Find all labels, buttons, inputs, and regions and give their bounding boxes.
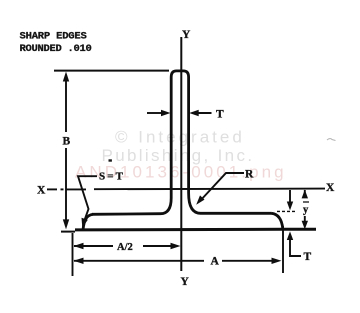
centerline X main	[94, 188, 325, 191]
extension line for B at stem top	[54, 70, 169, 72]
dimension y-bar line upper	[304, 190, 306, 198]
dimension y-bar line lower	[304, 216, 306, 223]
flange left tip curve	[83, 214, 93, 230]
dimension T top: left arrow tail	[147, 112, 163, 114]
arrowhead A/2 right (points right)	[171, 243, 181, 249]
dimension T bottom right: stem and elbow	[290, 238, 301, 256]
dimension B line lower	[65, 148, 67, 223]
arrowhead T-top left (points right)	[161, 110, 171, 116]
arrowhead flange-top right (points down)	[287, 202, 293, 211]
centerline X dot	[61, 188, 64, 190]
svg-text:T: T	[216, 109, 224, 121]
T-section outline: stem walls, stem top dome, fillets, flange top, flange tips, flange bottom	[171, 71, 188, 198]
svg-text:Y: Y	[182, 29, 191, 41]
centerline X (horizontal axis) dash	[47, 188, 57, 190]
arrowhead T-top right (points left)	[189, 110, 199, 116]
leader for S=T	[78, 176, 97, 223]
svg-text:X: X	[37, 185, 46, 197]
dimension B line upper	[65, 77, 67, 132]
flange bottom line	[75, 228, 316, 232]
svg-text:T: T	[304, 251, 312, 263]
svg-text:S=T: S=T	[99, 171, 125, 183]
flange top left segment	[92, 212, 161, 215]
dimension arrow stem: flange top from centerline (right)	[289, 190, 291, 202]
extension line A left	[72, 233, 74, 276]
svg-text:ROUNDED .010: ROUNDED .010	[20, 43, 92, 55]
arrowhead S=T leader (points down)	[82, 218, 88, 228]
svg-text:y: y	[303, 205, 309, 216]
extension line A right	[282, 226, 284, 273]
dimension A line right	[222, 260, 273, 262]
fillet right R (stem to flange)	[189, 193, 201, 213]
svg-text:B: B	[63, 136, 71, 148]
dimension A line left	[74, 260, 204, 262]
arrowhead A right (points right)	[272, 258, 282, 264]
noise dot	[109, 159, 112, 161]
fillet left (stem to flange)	[161, 198, 172, 214]
svg-text:A/2: A/2	[117, 242, 133, 253]
svg-text:R: R	[245, 169, 254, 181]
flange right tip curve	[272, 213, 283, 229]
arrowhead A left (points left)	[74, 258, 84, 264]
svg-text:A: A	[211, 256, 220, 268]
arrowhead T-bottom (points up)	[287, 231, 293, 240]
arrowhead y-bar down	[302, 221, 308, 230]
svg-text:SHARP EDGES: SHARP EDGES	[20, 31, 87, 43]
flange-top extension dash right	[277, 210, 296, 212]
arrowhead A/2 left (points left)	[74, 243, 84, 249]
arrowhead B down	[63, 219, 69, 229]
watermark artifact dash top right	[327, 139, 336, 141]
arrowhead R leader (points down-left)	[196, 195, 204, 204]
arrowhead B up	[63, 72, 69, 82]
y-bar overbar	[303, 201, 309, 203]
arrowhead y-bar up	[302, 190, 308, 199]
svg-text:X: X	[326, 182, 335, 194]
svg-text:Y: Y	[181, 276, 190, 288]
svg-text:© Integrated: © Integrated	[115, 128, 245, 147]
extension line for B at flange bottom left	[61, 231, 75, 233]
centerline Y (vertical axis)	[180, 37, 182, 271]
leader for R	[200, 173, 245, 202]
dimension A/2 line right	[143, 245, 172, 247]
dimension T top: right arrow tail	[195, 112, 212, 114]
centerline X main left	[66, 188, 86, 190]
flange top right segment	[201, 212, 272, 215]
dimension A/2 line left	[74, 245, 113, 247]
